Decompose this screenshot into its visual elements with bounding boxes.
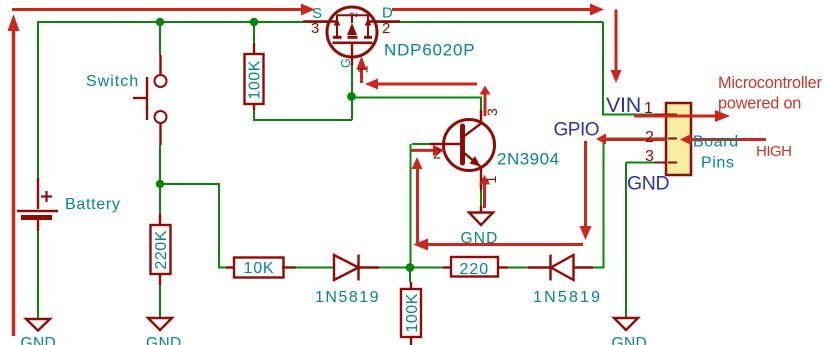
svg-text:NDP6020P: NDP6020P: [384, 41, 475, 60]
svg-text:2: 2: [382, 20, 390, 37]
svg-text:GND: GND: [612, 335, 648, 345]
svg-text:G: G: [339, 58, 353, 68]
svg-text:3: 3: [311, 20, 319, 37]
svg-text:GND: GND: [627, 173, 669, 195]
svg-text:Switch: Switch: [86, 73, 139, 90]
svg-text:Battery: Battery: [65, 196, 121, 213]
svg-text:Pins: Pins: [701, 155, 735, 172]
svg-text:1N5819: 1N5819: [533, 289, 602, 306]
svg-text:GND: GND: [461, 230, 499, 247]
svg-text:HIGH: HIGH: [756, 143, 792, 160]
svg-text:2: 2: [349, 12, 360, 18]
svg-text:1: 1: [644, 100, 653, 117]
svg-text:VIN: VIN: [606, 93, 641, 117]
svg-text:GND: GND: [21, 335, 57, 345]
svg-text:220: 220: [460, 261, 490, 278]
svg-text:D: D: [382, 5, 393, 22]
svg-text:2N3904: 2N3904: [497, 150, 560, 169]
svg-text:3: 3: [645, 148, 654, 165]
svg-text:1: 1: [483, 176, 499, 184]
svg-text:powered on: powered on: [718, 95, 801, 113]
svg-text:GPIO: GPIO: [554, 120, 600, 141]
svg-text:10K: 10K: [244, 260, 275, 277]
svg-text:Board: Board: [693, 134, 739, 151]
svg-text:220K: 220K: [153, 230, 170, 269]
svg-text:GND: GND: [146, 335, 182, 345]
svg-text:Microcontroller: Microcontroller: [718, 74, 823, 92]
svg-text:2: 2: [433, 147, 441, 163]
svg-text:2: 2: [645, 129, 654, 146]
svg-text:100K: 100K: [247, 60, 264, 99]
svg-text:1: 1: [355, 65, 372, 73]
svg-text:100K: 100K: [404, 293, 421, 332]
svg-text:1N5819: 1N5819: [315, 289, 380, 306]
svg-text:3: 3: [484, 108, 500, 116]
